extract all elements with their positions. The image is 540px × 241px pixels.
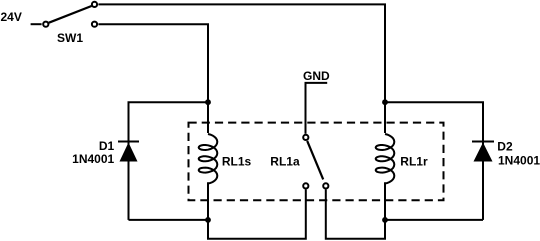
relay box (dashed) [189, 123, 444, 201]
svg-text:SW1: SW1 [57, 31, 83, 45]
svg-text:RL1s: RL1s [222, 155, 252, 169]
switch RL1a blade [307, 141, 323, 180]
switch RL1a right contact [323, 183, 328, 188]
wire RL1s bottom to left contact [208, 182, 306, 239]
node junction right top [382, 99, 388, 105]
wire D2 top branch [385, 102, 483, 141]
svg-text:RL1r: RL1r [400, 155, 428, 169]
svg-text:1N4001: 1N4001 [498, 153, 540, 167]
node junction left bottom [205, 217, 211, 223]
wire right contact to RL1r bottom [326, 182, 385, 239]
svg-text:GND: GND [303, 69, 330, 83]
switch RL1a common contact [303, 135, 308, 140]
svg-text:1N4001: 1N4001 [72, 152, 114, 166]
inductor RL1r coil [376, 134, 395, 184]
switch RL1a left contact [303, 183, 308, 188]
diode D2 [472, 102, 494, 220]
node junction left top [205, 99, 211, 105]
diode D1 [118, 102, 139, 220]
switch SW1 [43, 2, 97, 27]
svg-text:24V: 24V [1, 10, 22, 24]
svg-text:RL1a: RL1a [270, 155, 300, 169]
wire 24V lead [31, 23, 42, 25]
wire D1 top branch [129, 102, 209, 141]
wire top throw to RL1r top [98, 4, 385, 133]
node junction right bottom [382, 217, 388, 223]
wire bottom left (D1 to RL1s) [129, 219, 209, 221]
wire bottom right (RL1r to D2) [385, 219, 483, 221]
wire GND terminal [306, 83, 328, 134]
wire bottom throw to RL1s top [98, 24, 208, 133]
inductor RL1s coil [199, 134, 218, 184]
svg-text:D2: D2 [497, 139, 513, 153]
svg-text:D1: D1 [99, 139, 115, 153]
